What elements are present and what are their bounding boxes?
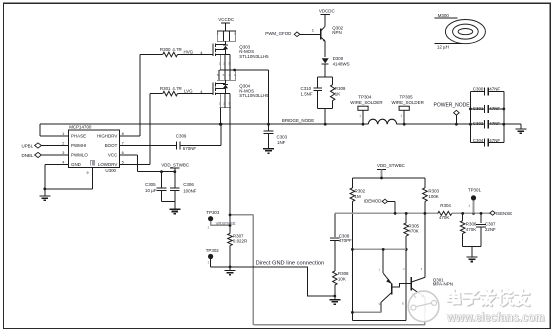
svg-text:4.7R: 4.7R	[172, 86, 181, 91]
svg-text:TP302: TP302	[206, 248, 220, 253]
svg-text:PWM_GFOD: PWM_GFOD	[265, 31, 291, 36]
svg-text:100K: 100K	[428, 194, 438, 199]
svg-text:LVG: LVG	[184, 88, 193, 93]
svg-text:VDD_STWBC: VDD_STWBC	[377, 163, 406, 168]
svg-text:1: 1	[468, 204, 470, 208]
svg-text:PWMLO: PWMLO	[71, 153, 88, 158]
svg-text:1: 1	[401, 114, 403, 118]
svg-text:3: 3	[62, 151, 64, 155]
svg-text:C302: C302	[473, 121, 484, 126]
svg-text:UPBL: UPBL	[22, 143, 34, 148]
svg-text:8: 8	[122, 132, 124, 136]
svg-text:C300: C300	[473, 86, 484, 91]
svg-text:www.elecfans.com: www.elecfans.com	[446, 309, 544, 324]
svg-text:WIRE_SOLDER: WIRE_SOLDER	[392, 100, 424, 105]
svg-text:47NF: 47NF	[489, 138, 500, 143]
svg-text:PHASE: PHASE	[71, 134, 86, 139]
svg-text:1: 1	[62, 132, 64, 136]
svg-text:4.7R: 4.7R	[172, 47, 181, 52]
svg-text:TP304: TP304	[358, 94, 372, 99]
svg-text:VCCDC: VCCDC	[218, 17, 235, 22]
svg-text:4148WS: 4148WS	[333, 61, 350, 66]
svg-text:1K: 1K	[335, 91, 340, 96]
svg-text:5: 5	[122, 160, 124, 164]
svg-text:0.022R: 0.022R	[233, 239, 247, 244]
svg-text:E: E	[402, 302, 404, 306]
svg-text:47NF: 47NF	[489, 106, 500, 111]
svg-text:7: 7	[122, 141, 124, 145]
svg-text:C304: C304	[473, 138, 484, 143]
svg-text:R303: R303	[428, 188, 439, 193]
svg-text:D300: D300	[333, 56, 344, 61]
svg-text:W: W	[379, 302, 382, 306]
svg-text:BRIDGE_NODE: BRIDGE_NODE	[282, 118, 314, 123]
svg-text:12 µH: 12 µH	[437, 44, 449, 49]
svg-text:R304: R304	[440, 203, 451, 208]
svg-text:9: 9	[87, 171, 89, 175]
svg-text:22NF: 22NF	[485, 227, 496, 232]
svg-text:R301: R301	[160, 86, 171, 91]
svg-text:C309: C309	[176, 133, 187, 138]
svg-text:10 µF: 10 µF	[145, 188, 157, 193]
svg-text:R300: R300	[160, 47, 171, 52]
svg-text:C301: C301	[473, 106, 484, 111]
svg-text:TP303: TP303	[206, 210, 220, 215]
svg-text:IDEMOD: IDEMOD	[364, 199, 382, 204]
svg-text:STL10N3LLH5: STL10N3LLH5	[239, 54, 269, 59]
svg-text:100NF: 100NF	[183, 189, 197, 194]
svg-text:HVG: HVG	[184, 49, 194, 54]
svg-text:1NF: 1NF	[277, 140, 286, 145]
svg-text:NPN: NPN	[332, 30, 341, 35]
svg-text:470PF: 470PF	[339, 238, 352, 243]
svg-text:TP305: TP305	[400, 94, 414, 99]
svg-text:1.5NF: 1.5NF	[301, 91, 313, 96]
svg-text:C306: C306	[183, 182, 194, 187]
svg-text:6: 6	[122, 151, 124, 155]
svg-text:TP301: TP301	[468, 187, 482, 192]
svg-text:LOWDRV: LOWDRV	[98, 162, 117, 167]
svg-text:DNBL: DNBL	[22, 153, 34, 158]
svg-text:ISENSE: ISENSE	[496, 211, 512, 216]
svg-text:STL10N3LLH5: STL10N3LLH5	[239, 93, 269, 98]
svg-text:1: 1	[207, 225, 209, 229]
svg-text:VCC: VCC	[108, 153, 118, 158]
svg-text:U300: U300	[105, 168, 116, 173]
svg-text:47NF: 47NF	[489, 121, 500, 126]
svg-text:1: 1	[359, 114, 361, 118]
svg-text:470K: 470K	[466, 227, 476, 232]
svg-text:BOOT: BOOT	[105, 143, 118, 148]
svg-text:VRSENSE: VRSENSE	[216, 221, 236, 226]
svg-text:WIRE_SOLDER: WIRE_SOLDER	[350, 100, 382, 105]
svg-text:C305: C305	[145, 182, 156, 187]
svg-text:Direct GND line connection: Direct GND line connection	[256, 260, 325, 266]
svg-text:GND: GND	[71, 162, 81, 167]
svg-text:VDCDC: VDCDC	[319, 8, 336, 13]
svg-text:VDD_STWBC: VDD_STWBC	[161, 163, 190, 168]
svg-text:47NF: 47NF	[489, 86, 500, 91]
svg-text:R302: R302	[355, 188, 366, 193]
svg-text:C310: C310	[301, 86, 312, 91]
svg-text:MPA-NPN: MPA-NPN	[433, 282, 453, 287]
svg-text:C303: C303	[277, 134, 288, 139]
svg-text:4: 4	[62, 160, 64, 164]
svg-text:POWER_NODE: POWER_NODE	[434, 103, 471, 109]
svg-text:HIGHDRV: HIGHDRV	[97, 134, 117, 139]
svg-text:MCP14700: MCP14700	[69, 125, 92, 130]
svg-text:1M: 1M	[355, 194, 361, 199]
svg-text:PWMHI: PWMHI	[71, 143, 86, 148]
svg-text:2: 2	[62, 141, 64, 145]
svg-text:R308: R308	[338, 271, 349, 276]
svg-text:1: 1	[207, 261, 209, 265]
svg-text:R309: R309	[335, 86, 346, 91]
svg-text:470K: 470K	[439, 215, 449, 220]
svg-text:470K: 470K	[408, 228, 418, 233]
svg-text:10K: 10K	[338, 276, 346, 281]
svg-text:670NF: 670NF	[183, 146, 197, 151]
svg-text:M300: M300	[438, 13, 450, 18]
